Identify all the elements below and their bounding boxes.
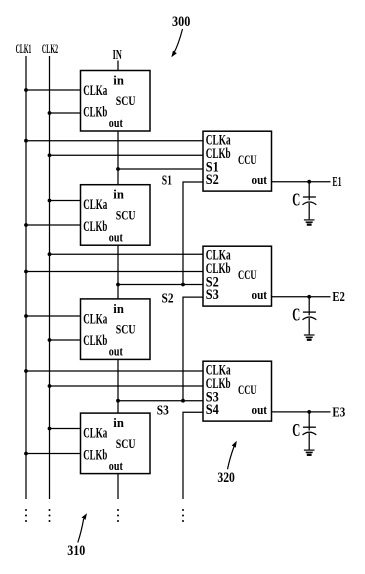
arrow for 310 [78, 519, 84, 543]
junction dot SCU4 CLKa [48, 427, 52, 431]
svg-text:out: out [109, 229, 124, 244]
junction dot CCU3 CLKb [48, 384, 52, 388]
svg-text:out: out [109, 115, 124, 130]
svg-text:E2: E2 [332, 289, 345, 304]
svg-text:CLKa: CLKa [83, 311, 107, 327]
junction dot node S3 tap [181, 399, 185, 403]
capacitor C curved plate (E3) [303, 432, 317, 435]
svg-text:E3: E3 [332, 404, 345, 419]
capacitor C curved plate (E2) [303, 317, 317, 320]
junction dot output E1 [307, 180, 311, 184]
svg-text:SCU: SCU [116, 436, 136, 451]
wire node S2 to CCU2 S2 input [118, 284, 203, 286]
wire CLK1 to CCU2 CLKb [26, 271, 203, 273]
block SCU4 (shift control unit) [81, 413, 151, 474]
svg-text:CCU: CCU [238, 382, 257, 397]
svg-text:320: 320 [217, 470, 235, 486]
svg-text:CLKb: CLKb [83, 105, 107, 121]
continuation ellipsis on CLK1 line [25, 509, 27, 522]
wire CLK2 to SCU4 CLKa [50, 428, 81, 430]
svg-text:CCU: CCU [238, 152, 257, 167]
wire CLK1 to SCU2 CLKb [26, 224, 81, 226]
wire node S3 to CCU3 S3 input [118, 400, 203, 402]
arrow for 300 [174, 29, 183, 53]
wire CLK1 to CCU3 CLKa [26, 370, 203, 372]
clock line CLK2 [49, 56, 51, 499]
svg-text:S2: S2 [206, 172, 219, 188]
wire CCU1 S2 input tap (down to node S2) [183, 182, 203, 285]
wire CCU2 out to E2 [272, 296, 331, 298]
junction dot SCU1 CLKb [48, 111, 52, 115]
junction dot SCU3 CLKb [48, 338, 52, 342]
arrow for 320 [228, 445, 235, 469]
svg-text:S3: S3 [206, 287, 219, 303]
block CCU1 (carry control unit) [203, 131, 272, 191]
capacitor C bottom lead (E2) [308, 318, 310, 334]
ground symbol (E2) [304, 335, 315, 340]
capacitor C lead (E3) [308, 412, 310, 431]
junction dot node S2 tap [181, 283, 185, 287]
wire CCU2 S3 input tap (down to node S3) [183, 297, 203, 401]
wire CLK1 to SCU4 CLKb [26, 453, 81, 455]
wire CLK2 to SCU3 CLKb [50, 339, 81, 341]
junction dot CCU1 CLKb [48, 153, 52, 157]
svg-text:CLKa: CLKa [83, 426, 107, 442]
junction dot CCU1 CLKa [24, 139, 28, 143]
svg-text:out: out [252, 172, 268, 187]
continuation ellipsis on S4 tap line [182, 509, 184, 522]
continuation ellipsis on SCU spine line [117, 509, 119, 522]
clock line CLK1 [25, 56, 27, 499]
junction dot SCU1 CLKa [24, 88, 28, 92]
block SCU3 (shift control unit) [81, 299, 151, 360]
svg-text:in: in [113, 188, 124, 202]
wire node S1 to CCU1 S1 input [118, 168, 203, 170]
capacitor C top plate (E1) [303, 196, 316, 198]
junction dot node S3 on SCU spine [116, 399, 120, 403]
wire IN to SCU1 in [117, 61, 119, 71]
capacitor C bottom lead (E3) [308, 433, 310, 449]
svg-text:SCU: SCU [116, 322, 136, 337]
svg-text:C: C [292, 305, 300, 325]
svg-text:S2: S2 [162, 291, 174, 306]
wire SCU4 out (node S4) [117, 474, 119, 499]
svg-text:CLK2: CLK2 [42, 42, 58, 56]
junction dot CCU2 CLKa [48, 252, 52, 256]
junction dot SCU3 CLKa [24, 314, 28, 318]
junction dot SCU4 CLKb [24, 452, 28, 456]
svg-text:in: in [113, 74, 124, 88]
block CCU2 (carry control unit) [203, 246, 272, 306]
svg-text:CLKb: CLKb [83, 447, 107, 463]
wire CLK1 to CCU1 CLKa [26, 140, 203, 142]
ground symbol (E3) [304, 450, 315, 455]
junction dot SCU2 CLKa [48, 199, 52, 203]
wire CLK2 to SCU2 CLKa [50, 200, 81, 202]
junction dot SCU2 CLKb [24, 223, 28, 227]
svg-text:S4: S4 [206, 402, 219, 418]
svg-text:CLKb: CLKb [83, 333, 107, 349]
wire CLK1 to SCU1 CLKa [26, 89, 81, 91]
wire CLK2 to SCU1 CLKb [50, 112, 81, 114]
junction dot node S2 on SCU spine [116, 283, 120, 287]
continuation ellipsis on CLK2 line [49, 509, 51, 522]
capacitor C curved plate (E1) [303, 202, 317, 205]
svg-text:E1: E1 [332, 174, 341, 189]
ground symbol (E1) [304, 220, 315, 225]
capacitor C top plate (E2) [303, 311, 316, 313]
wire CLK2 to CCU3 CLKb [50, 385, 204, 387]
svg-text:C: C [292, 420, 300, 440]
junction dot CCU3 CLKa [24, 369, 28, 373]
svg-text:300: 300 [172, 14, 190, 30]
block SCU1 (shift control unit) [81, 71, 151, 132]
wire CLK2 to CCU1 CLKb [50, 154, 204, 156]
wire CLK1 to SCU3 CLKa [26, 315, 81, 317]
wire CCU1 out to E1 [272, 181, 331, 183]
svg-text:CCU: CCU [238, 267, 257, 282]
wire CCU3 S4 input tap (down to node S4) [183, 412, 203, 499]
wire CLK2 to CCU2 CLKa [50, 253, 204, 255]
svg-text:S3: S3 [157, 403, 169, 418]
svg-text:out: out [252, 287, 268, 302]
capacitor C bottom lead (E1) [308, 203, 310, 219]
svg-text:CLKa: CLKa [83, 83, 107, 99]
svg-text:310: 310 [67, 543, 85, 559]
junction dot node S1 on SCU spine [116, 167, 120, 171]
svg-text:CLKa: CLKa [83, 197, 107, 213]
block CCU3 (carry control unit) [203, 361, 272, 421]
svg-text:out: out [109, 458, 124, 473]
wire SCU3 out to SCU4 in (node S3) [117, 359, 119, 413]
svg-text:in: in [113, 416, 124, 430]
svg-text:SCU: SCU [116, 93, 136, 108]
wire SCU1 out to SCU2 in (node S1) [117, 131, 119, 185]
svg-text:SCU: SCU [116, 207, 136, 222]
svg-text:out: out [252, 402, 268, 417]
capacitor C lead (E2) [308, 297, 310, 316]
capacitor C top plate (E3) [303, 426, 316, 428]
junction dot output E2 [307, 295, 311, 299]
capacitor C lead (E1) [308, 182, 310, 201]
block SCU2 (shift control unit) [81, 185, 151, 246]
svg-text:in: in [113, 302, 124, 316]
wire SCU2 out to SCU3 in (node S2) [117, 245, 119, 299]
svg-text:CLK1: CLK1 [16, 42, 32, 56]
wire CCU3 out to E3 [272, 411, 331, 413]
junction dot output E3 [307, 410, 311, 414]
svg-text:CLKb: CLKb [83, 219, 107, 235]
svg-text:S1: S1 [162, 174, 172, 189]
svg-text:IN: IN [113, 48, 122, 63]
svg-text:C: C [292, 190, 300, 210]
svg-text:out: out [109, 344, 124, 359]
junction dot CCU2 CLKb [24, 270, 28, 274]
